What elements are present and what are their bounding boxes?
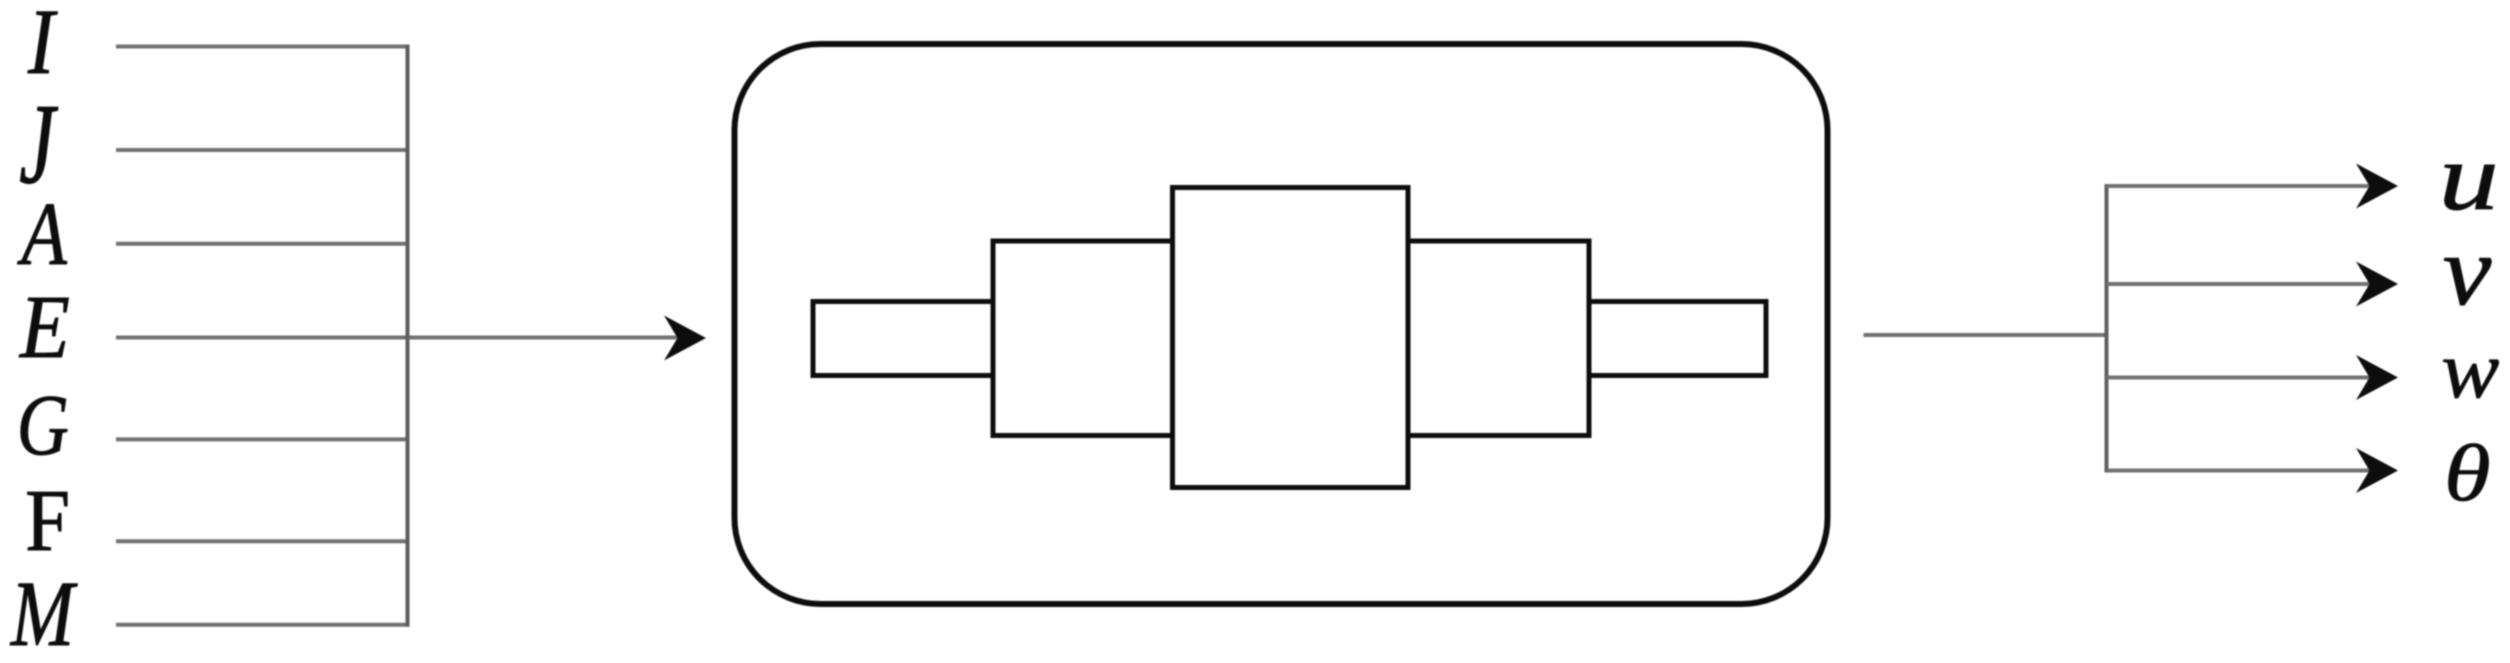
layer 1 (left small rectangle) — [813, 302, 993, 376]
layer 3 (center tall rectangle) — [1173, 188, 1409, 488]
layer 5 (right small rectangle) — [1589, 302, 1766, 376]
layer 4 (right medium rectangle) — [1408, 241, 1589, 436]
arrowhead v — [2356, 262, 2398, 307]
wire input row F — [116, 539, 410, 543]
svg-text:u: u — [2439, 126, 2499, 230]
svg-text:θ: θ — [2444, 429, 2491, 519]
svg-text:A: A — [17, 185, 68, 284]
wire input row A — [116, 242, 410, 246]
svg-text:G: G — [17, 378, 69, 474]
wire output row u — [2107, 184, 2371, 188]
input collector bus (left vertical line) — [406, 45, 410, 627]
wire input row G — [116, 437, 410, 441]
wire output row theta — [2107, 469, 2371, 473]
arrowhead theta — [2356, 448, 2398, 493]
arrowhead w — [2356, 355, 2398, 400]
wire block output — [1864, 333, 2109, 337]
wire input row I — [116, 45, 410, 49]
arrowhead u — [2356, 164, 2398, 209]
wire input row J — [116, 148, 410, 152]
network block (rounded rectangle) — [735, 44, 1828, 604]
arrowhead into block — [664, 316, 706, 361]
svg-text:I: I — [27, 0, 58, 94]
svg-text:w: w — [2441, 325, 2499, 415]
wire output row v — [2107, 282, 2371, 286]
wire input row E feeding the block — [116, 336, 677, 340]
output splitter bus (right vertical line) — [2105, 184, 2109, 473]
svg-text:ν: ν — [2443, 216, 2492, 326]
wire output row w — [2107, 376, 2371, 380]
svg-text:E: E — [19, 278, 70, 377]
layer 2 (left medium rectangle) — [993, 241, 1173, 436]
svg-text:M: M — [10, 563, 78, 663]
svg-text:F: F — [25, 473, 70, 570]
wire input row M — [116, 623, 410, 627]
